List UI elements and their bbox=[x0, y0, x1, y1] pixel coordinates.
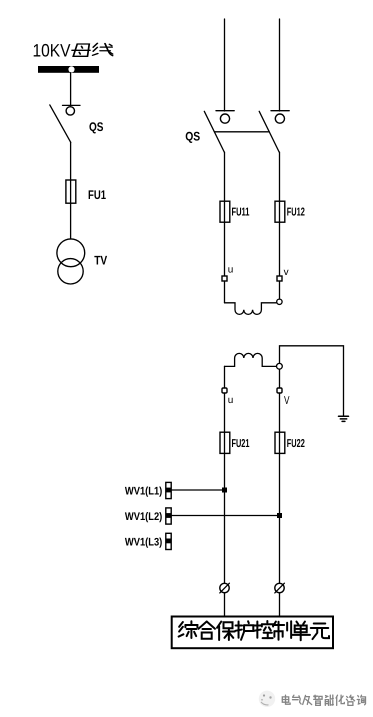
glyph 及 bbox=[303, 695, 312, 704]
wire secondary left down to terminal u bbox=[224, 366, 226, 388]
svg-text:u: u bbox=[228, 264, 234, 275]
svg-text:WV1(L3): WV1(L3) bbox=[125, 536, 163, 548]
glyph 元 bbox=[311, 624, 329, 640]
wire through FU12 bbox=[279, 201, 281, 222]
node: primary winding end circle bbox=[277, 299, 282, 304]
wire terminal v down bbox=[279, 281, 281, 299]
glyph 询 bbox=[357, 695, 365, 705]
wire FU11 to terminal u bbox=[224, 222, 226, 276]
wire through FU21 bbox=[224, 432, 226, 454]
svg-text:V: V bbox=[284, 395, 290, 407]
fuse FU21 body bbox=[220, 432, 230, 453]
label "母" of busbar title (hand-drawn glyph) bbox=[72, 44, 90, 56]
glyph 智 bbox=[314, 695, 322, 705]
disconnector QS right pole B: blade bbox=[259, 111, 279, 152]
disconnector QS right pole B: fixed contact tick bbox=[271, 110, 289, 112]
disconnector QS left: blade bbox=[50, 105, 71, 142]
terminal v (primary winding) bbox=[277, 276, 282, 281]
svg-text:FU12: FU12 bbox=[287, 207, 305, 219]
QS ganged linkage bar bbox=[214, 131, 269, 133]
glyph 能 bbox=[325, 695, 333, 705]
primary winding of VT (scalloped coil) bbox=[225, 303, 277, 315]
wire pole A to FU11 bbox=[224, 152, 226, 201]
wire through FU11 bbox=[224, 201, 226, 222]
wire through FU1 bbox=[70, 180, 72, 203]
terminal V (secondary) bbox=[277, 388, 282, 393]
watermark logo bbox=[259, 691, 275, 707]
node: secondary winding junction circle bbox=[277, 363, 283, 369]
glyph 咨 bbox=[346, 695, 354, 705]
wire FU22 down to relay unit bbox=[279, 454, 281, 584]
svg-text:FU1: FU1 bbox=[88, 188, 106, 202]
glyph 单 bbox=[291, 622, 310, 641]
slashed terminal circle phase a bbox=[220, 583, 229, 592]
svg-text:WV1(L1): WV1(L1) bbox=[125, 486, 163, 498]
svg-text:QS: QS bbox=[89, 120, 104, 134]
busbar junction dot bbox=[68, 66, 74, 72]
wire terminal u to FU21 bbox=[224, 393, 226, 432]
svg-text:FU22: FU22 bbox=[287, 438, 305, 450]
glyph 保 bbox=[217, 622, 235, 641]
terminal u (secondary) bbox=[222, 388, 227, 393]
fuse FU11 body bbox=[220, 201, 230, 222]
fuse FU1 body bbox=[66, 180, 76, 203]
wire FU21 down to relay unit bbox=[224, 454, 226, 584]
svg-text:TV: TV bbox=[94, 254, 108, 268]
wire FU1 to TV bbox=[70, 203, 72, 239]
terminal block WV1(L2) bbox=[166, 508, 171, 524]
svg-text:FU11: FU11 bbox=[232, 207, 250, 219]
svg-text:10KV: 10KV bbox=[33, 41, 71, 61]
wire secondary right down to terminal V bbox=[279, 369, 281, 388]
svg-text:FU21: FU21 bbox=[232, 438, 250, 450]
relay unit box 综合保护控制单元 bbox=[172, 617, 333, 649]
svg-text:QS: QS bbox=[185, 130, 200, 144]
slashed terminal circle phase b bbox=[275, 583, 284, 592]
wire busbar to QS bbox=[70, 73, 72, 106]
voltage transformer TV primary circle bbox=[57, 239, 85, 267]
glyph 电 bbox=[282, 695, 290, 704]
disconnector QS right pole A: fixed contact tick bbox=[216, 110, 234, 112]
wire phase b into relay box bbox=[279, 593, 281, 617]
disconnector QS left: hinge circle bbox=[66, 107, 74, 115]
node junction L2 on phase b bbox=[277, 513, 282, 518]
glyph 控 bbox=[254, 621, 273, 638]
svg-text:u: u bbox=[228, 395, 234, 406]
wire QS to FU1 bbox=[70, 142, 72, 180]
wire FU12 to terminal v bbox=[279, 222, 281, 276]
watermark text 电气及智能化咨询 (hand drawn, gray) bbox=[282, 695, 365, 705]
wire phase A supply (top left column) bbox=[224, 19, 226, 111]
wire terminal u down bbox=[224, 281, 226, 303]
glyph 综 bbox=[179, 621, 198, 638]
voltage transformer TV secondary circle bbox=[58, 259, 83, 284]
ground symbol bbox=[339, 416, 349, 421]
wire WV1(L2) to phase b bbox=[171, 515, 279, 517]
disconnector QS right pole B: hinge circle bbox=[275, 114, 284, 123]
terminal block WV1(L1) bbox=[166, 482, 171, 498]
wire terminal V to FU22 bbox=[279, 393, 281, 432]
relay box label text 综合保护控制单元 (hand drawn, bold) bbox=[179, 621, 329, 640]
disconnector QS right pole A: hinge circle bbox=[220, 114, 229, 123]
glyph 化 bbox=[336, 695, 344, 705]
terminal block WV1(L3) bbox=[166, 533, 171, 549]
wire WV1(L1) to phase a bbox=[171, 489, 224, 491]
label "线" of busbar title (hand-drawn glyph) bbox=[93, 43, 113, 55]
disconnector QS right pole A: blade bbox=[204, 111, 224, 152]
svg-text:WV1(L2): WV1(L2) bbox=[125, 511, 163, 523]
glyph 制 bbox=[273, 621, 291, 640]
terminal u (primary winding) bbox=[222, 276, 227, 281]
secondary circuit: wire from winding head corner to ground run bbox=[280, 346, 344, 416]
wire pole B to FU12 bbox=[279, 152, 281, 201]
fuse FU22 body bbox=[275, 432, 285, 453]
wire phase B supply (top right column) bbox=[279, 19, 281, 111]
wire through FU22 bbox=[279, 432, 281, 454]
glyph 气 bbox=[293, 695, 302, 704]
glyph 护 bbox=[235, 621, 253, 640]
glyph 合 bbox=[198, 622, 215, 639]
disconnector QS left: fixed contact tick bbox=[63, 104, 81, 106]
fuse FU12 body bbox=[275, 201, 285, 222]
svg-text:v: v bbox=[284, 267, 289, 278]
secondary winding of VT (scalloped coil) bbox=[225, 353, 277, 366]
wire phase a into relay box bbox=[224, 593, 226, 617]
busbar 10KV bbox=[38, 66, 99, 73]
node junction L1 on phase a bbox=[222, 488, 227, 493]
